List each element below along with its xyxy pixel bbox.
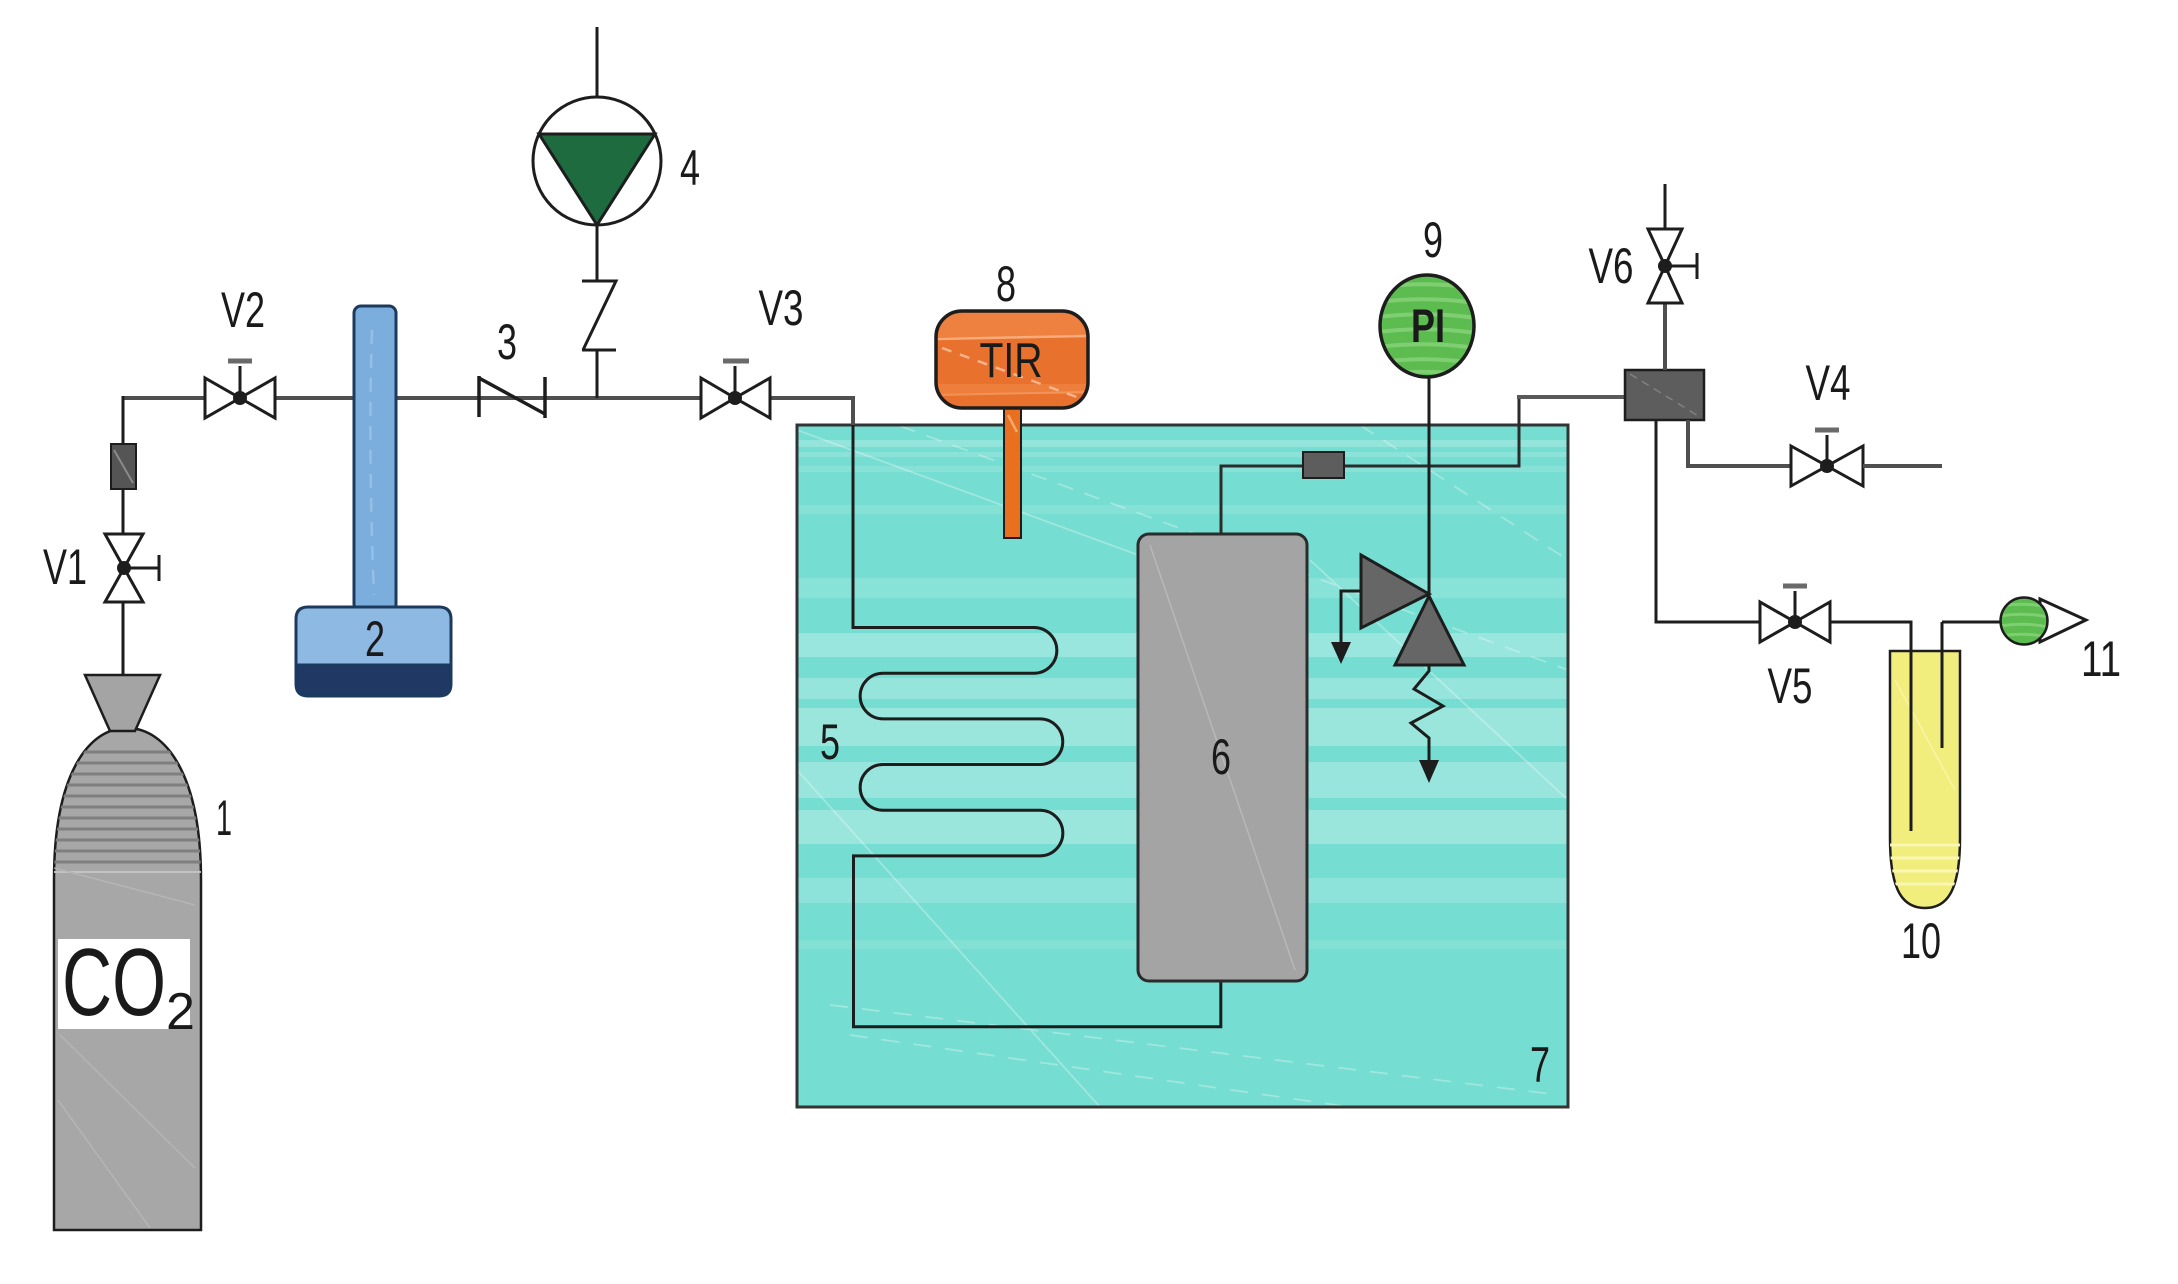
TIR indicator 8 bbox=[936, 311, 1088, 408]
svg-text:5: 5 bbox=[820, 714, 840, 770]
pipe filter to V1 bbox=[122, 489, 125, 534]
svg-text:V1: V1 bbox=[43, 539, 87, 595]
manometer base bbox=[296, 607, 451, 696]
PI impulse line bbox=[1428, 378, 1431, 594]
branch to V5 bbox=[1656, 420, 1759, 622]
pipe V1 to cylinder bbox=[122, 602, 125, 675]
valve V1 bbox=[105, 534, 159, 602]
water bath 7 bbox=[797, 425, 1568, 1107]
pipe from vessel top to bath exit bbox=[1221, 397, 1519, 534]
valve V4 bbox=[1791, 430, 1863, 486]
flow indicator 11 bbox=[2000, 598, 2086, 645]
PI gauge 9 bbox=[1378, 275, 1476, 377]
back-pressure regulator bbox=[1625, 370, 1704, 420]
pipe elbow into bath bbox=[851, 396, 855, 425]
main pipe from cylinder to bath bbox=[123, 396, 854, 400]
svg-text:3: 3 bbox=[497, 314, 517, 370]
svg-text:4: 4 bbox=[680, 140, 700, 196]
extraction vessel 6 bbox=[1138, 534, 1307, 981]
svg-text:7: 7 bbox=[1530, 1037, 1550, 1093]
branch to V4 bbox=[1688, 420, 1790, 466]
inline fitting on vessel outlet bbox=[1303, 452, 1344, 478]
V5 outlet to collector bbox=[1830, 622, 1911, 831]
CO2 cylinder 1 bbox=[54, 728, 201, 1230]
valve V3 bbox=[701, 361, 770, 418]
flexible connector below pump bbox=[582, 281, 616, 350]
svg-text:CO: CO bbox=[62, 929, 166, 1036]
pump branch line bbox=[596, 350, 599, 398]
cylinder valve cone bbox=[85, 675, 160, 731]
valve V6 bbox=[1648, 184, 1697, 370]
svg-text:V3: V3 bbox=[759, 280, 804, 336]
svg-text:PI: PI bbox=[1411, 299, 1445, 352]
svg-text:V4: V4 bbox=[1806, 355, 1851, 411]
svg-text:V6: V6 bbox=[1589, 238, 1634, 294]
svg-text:2: 2 bbox=[365, 611, 385, 667]
V4 outlet line bbox=[1863, 464, 1942, 468]
valve V2 bbox=[205, 361, 275, 418]
svg-text:V2: V2 bbox=[221, 282, 265, 338]
svg-text:9: 9 bbox=[1423, 212, 1443, 268]
valve V5 bbox=[1760, 586, 1830, 642]
pipe down-left to filter bbox=[122, 396, 125, 444]
pipe bath to regulator bbox=[1517, 395, 1625, 399]
cooling coil 5 bbox=[853, 425, 1221, 1027]
manometer column 2 bbox=[354, 306, 396, 611]
svg-text:2: 2 bbox=[166, 983, 195, 1041]
line collector to flow indicator bbox=[1942, 621, 2001, 624]
inline filter above cylinder bbox=[111, 444, 136, 489]
TIR sensor stem bbox=[1004, 405, 1021, 538]
collection tube 10 bbox=[1890, 622, 1960, 908]
svg-text:1: 1 bbox=[216, 790, 232, 846]
pump 4 bbox=[533, 27, 661, 281]
svg-text:10: 10 bbox=[1901, 913, 1941, 969]
svg-text:8: 8 bbox=[996, 256, 1016, 312]
check valve 3 bbox=[479, 376, 545, 418]
svg-text:11: 11 bbox=[2081, 631, 2121, 687]
svg-text:6: 6 bbox=[1211, 729, 1231, 785]
relief valve in bath bbox=[1331, 555, 1464, 783]
svg-text:TIR: TIR bbox=[980, 334, 1043, 388]
svg-text:V5: V5 bbox=[1768, 658, 1813, 714]
